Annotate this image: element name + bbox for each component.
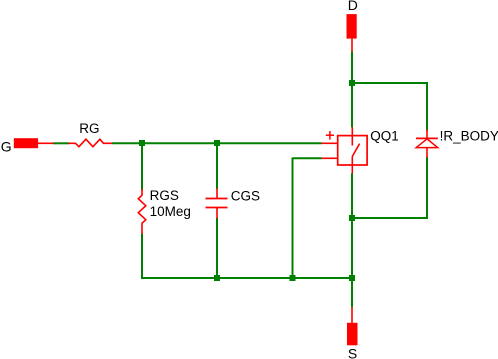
svg-text:S: S <box>348 346 357 359</box>
wire CGS top vertical <box>216 143 218 189</box>
svg-text:G: G <box>1 139 12 155</box>
node junction switch bottom / diode return <box>349 215 355 221</box>
wire RGS bottom vertical <box>141 234 143 280</box>
diode !R_BODY <box>416 130 438 158</box>
svg-text:RG: RG <box>79 121 99 136</box>
node junction CGS bottom <box>214 275 220 281</box>
pin S <box>347 323 358 346</box>
wire CGS bottom vertical <box>216 218 218 278</box>
wire G horizontal left of RG <box>53 142 69 144</box>
switch QQ1 <box>322 127 368 173</box>
svg-text:D: D <box>348 0 358 13</box>
node junction S rail <box>349 275 355 281</box>
wire switch lower-left vertical <box>292 158 294 279</box>
node junction D split <box>349 80 355 86</box>
wire D vertical <box>351 51 353 127</box>
wire diode branch top horizontal <box>352 82 427 84</box>
wire S junction to S pin <box>351 278 353 307</box>
svg-text:CGS: CGS <box>231 189 260 204</box>
wire G horizontal RG to switch <box>112 142 322 144</box>
svg-text:!R_BODY: !R_BODY <box>440 128 498 143</box>
wire diode branch bottom horizontal <box>352 217 427 219</box>
wire switch bottom to S junction <box>351 173 353 278</box>
resistor RG <box>69 139 113 147</box>
wire diode branch right vertical top <box>426 82 428 131</box>
svg-text:QQ1: QQ1 <box>370 128 399 143</box>
switch plus mark <box>326 131 334 140</box>
node junction RG/RGS <box>139 140 145 146</box>
wire diode branch right vertical bottom <box>426 157 428 219</box>
capacitor CGS <box>206 188 228 218</box>
pin G <box>14 138 38 148</box>
resistor RGS <box>138 189 146 234</box>
node junction switch-left bottom <box>290 275 296 281</box>
wire bottom rail <box>141 277 352 279</box>
pin D <box>347 14 357 38</box>
svg-text:10Meg: 10Meg <box>150 204 191 219</box>
svg-text:RGS: RGS <box>150 188 179 203</box>
wire switch lower-left horizontal <box>293 157 322 159</box>
wire RGS top vertical <box>141 143 143 190</box>
node junction CGS top <box>214 140 220 146</box>
